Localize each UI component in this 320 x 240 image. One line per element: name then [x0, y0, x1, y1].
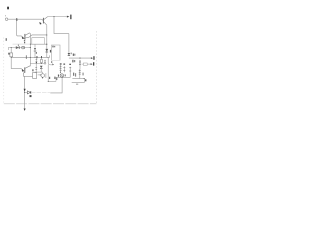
- rail left vertical x30: [29, 33, 31, 66]
- zener diode mid column x35: [34, 44, 36, 47]
- Q3 collector diagonal: [25, 66, 30, 69]
- wire x84 down: [83, 79, 85, 83]
- wire x36 column: [35, 64, 37, 73]
- node center wire: [46, 35, 47, 36]
- node rail58 x80: [79, 58, 80, 59]
- resistor R3 box right lower: [79, 69, 81, 76]
- small box mid right: [83, 63, 87, 65]
- pin label right 2: [93, 62, 94, 65]
- component x64 vertical: [63, 66, 65, 72]
- label under rail58 b: [74, 60, 75, 62]
- label top x70: [69, 64, 71, 65]
- transistor Q1 collector lead up: [44, 17, 48, 20]
- transistor Q2 lead to right: [25, 35, 47, 38]
- Q3 base wire: [11, 68, 22, 70]
- wire down right branch: [68, 34, 70, 53]
- transistor Q2 collector lead: [25, 33, 30, 35]
- transistor Q1 emitter arrow: [40, 22, 42, 24]
- transistor Q3 bar: [24, 67, 26, 72]
- transistor Q2 emitter arrow: [22, 36, 25, 39]
- node rail44 right: [46, 44, 47, 45]
- rail y82.7: [72, 82, 85, 84]
- tick left of rail77: [73, 73, 74, 76]
- arrow terminal right 2: [91, 63, 93, 65]
- marks below-left of mid rail: [56, 78, 57, 80]
- wire to arrow right 2: [88, 63, 91, 65]
- node rail47 x11: [11, 47, 12, 48]
- ticks R3: [79, 70, 81, 74]
- diode D3 inline: [16, 46, 19, 49]
- diode D2 on center wire: [45, 49, 48, 52]
- resistor R5 box: [33, 73, 37, 79]
- marks at bend cluster: [50, 61, 53, 63]
- transistor Q6 cluster: [60, 74, 63, 77]
- wire R3 to rail: [79, 76, 81, 79]
- wire column x41.5: [40, 58, 42, 63]
- tick inside Q6: [61, 75, 63, 76]
- diode D5 bar: [30, 91, 32, 94]
- label right of rail82: [85, 79, 86, 81]
- wire from Q6 node down: [50, 77, 62, 93]
- node rail81: [48, 81, 49, 82]
- ticks right of Q4: [45, 73, 47, 78]
- zener bar: [34, 50, 36, 52]
- node rail44 left: [30, 44, 31, 45]
- ticks x64: [63, 67, 65, 70]
- node rail x30: [30, 57, 31, 58]
- marks above rail81 b: [54, 77, 55, 79]
- node below R4: [60, 72, 61, 73]
- bottom long wire: [24, 76, 26, 110]
- component column x36.4: [35, 58, 37, 63]
- resistor R1 box on left rail: [10, 53, 13, 57]
- wire vertical main center: [46, 25, 48, 57]
- zener small blob: [36, 52, 37, 54]
- tick left of rail77 b: [74, 73, 77, 76]
- arrow terminal right 1: [91, 57, 93, 59]
- zener lower lead: [34, 51, 36, 57]
- diode D5 triangle: [27, 91, 30, 94]
- component column x45: [44, 60, 46, 65]
- stub left end: [7, 48, 9, 51]
- Q6 marks left: [58, 75, 59, 77]
- arrow head: [40, 74, 41, 75]
- node rail x35: [34, 56, 37, 59]
- transistor Q2 bar: [24, 34, 26, 40]
- tick crossing rail57 at x41.5: [40, 56, 43, 58]
- arrow into circle: [38, 74, 40, 76]
- mark right of Q3: [32, 69, 33, 71]
- diode D5 anode wire: [25, 91, 28, 93]
- transistor Q3 arrow: [22, 69, 24, 72]
- diode D4 below rail63: [40, 66, 43, 69]
- left rail vertical x11: [10, 48, 12, 69]
- blob bottom column x36.4: [36, 62, 37, 63]
- label top x64: [63, 64, 65, 65]
- wire top rail to output arrow: [48, 16, 67, 18]
- node top rail: [53, 16, 54, 17]
- tick above terminal: [4, 14, 7, 17]
- label right of D1 b: [73, 54, 76, 56]
- node rail77 x84: [84, 78, 85, 79]
- label left of R1: [8, 53, 9, 55]
- wire x48 down to rail81: [47, 65, 49, 82]
- Q4 node bottom: [42, 77, 43, 78]
- resistor R4 mid cluster: [60, 65, 62, 73]
- tick right of D1: [70, 53, 73, 55]
- node rail63 x41: [41, 63, 42, 64]
- label below D5: [30, 95, 32, 97]
- stub left of small box: [82, 63, 84, 65]
- rail y63.5: [30, 63, 46, 65]
- tick below faint rail: [17, 45, 20, 47]
- tick crossing rail57 at x37: [36, 56, 39, 58]
- label top R4: [60, 63, 62, 64]
- node at diode junction: [24, 92, 25, 93]
- diode D1 bar: [68, 55, 70, 57]
- rail y77.8 right cluster: [72, 78, 84, 80]
- label below Q2 bar b: [24, 42, 25, 43]
- ticks on column x36.4: [36, 60, 38, 62]
- tick mid right cluster: [82, 73, 85, 76]
- diode D3 cathode bar: [18, 46, 20, 49]
- wire from top node down and right: [54, 17, 69, 34]
- IC box middle: [51, 45, 60, 60]
- faint text under rail82: [76, 84, 78, 85]
- resistor R2 box right: [79, 60, 81, 66]
- component x70 vertical: [69, 67, 71, 78]
- faint rail y44 left: [13, 43, 31, 45]
- bend cluster arrow: [52, 63, 54, 65]
- current arrow on bottom wire: [24, 89, 26, 92]
- component symbol right of D3: [22, 46, 25, 49]
- border left: [3, 38, 5, 104]
- tick on column x45: [44, 61, 46, 63]
- wire D4 to rail72: [40, 69, 42, 73]
- transistor Q4 circle: [41, 74, 45, 78]
- ticks x36: [35, 67, 37, 69]
- transistor Q1 lead down-right: [44, 22, 47, 25]
- diode D4 bar: [40, 68, 43, 70]
- tick on rail57 x26: [25, 55, 28, 59]
- wire input to Q1: [8, 19, 43, 21]
- Q6 marks right: [65, 74, 66, 76]
- pin label right 1: [93, 56, 94, 60]
- wire down from input node: [17, 19, 22, 36]
- box component upper middle: [32, 38, 45, 45]
- node bottom rail x11: [11, 57, 12, 58]
- bottom rail y57.3: [11, 56, 49, 58]
- rail y44: [30, 43, 47, 45]
- marks above rail81: [49, 77, 50, 79]
- ticks R2: [79, 61, 81, 65]
- rail y77.3 mid: [56, 76, 71, 78]
- faint wire right of D5: [31, 92, 50, 94]
- terminal IN circle: [5, 18, 8, 21]
- text inside box 2: [54, 46, 55, 47]
- rail y72.1: [35, 71, 43, 73]
- arrow terminal top: [67, 16, 70, 18]
- ticks x70: [69, 68, 71, 71]
- wire box bottom bend: [47, 57, 53, 65]
- label right of D1: [73, 54, 74, 56]
- IC box bottom faint: [51, 59, 60, 61]
- wire R2 to R3: [79, 66, 81, 69]
- label below Q2 bar: [24, 40, 25, 41]
- label right of D2: [50, 50, 52, 53]
- rail y58 right area: [69, 57, 91, 59]
- border right: [95, 31, 97, 104]
- transistor Q1 bar: [42, 18, 44, 24]
- pin label top terminal: [70, 15, 71, 20]
- diode D2 bar: [46, 51, 49, 53]
- node rail47 x30: [30, 47, 31, 48]
- tick on symbol: [23, 46, 25, 49]
- border bottom: [4, 103, 97, 105]
- rail y81.4: [48, 80, 56, 82]
- text inside box: [52, 46, 53, 48]
- rail left y47.5: [8, 47, 30, 49]
- label under rail58: [72, 60, 73, 63]
- wire rail81 to rail77: [55, 77, 57, 81]
- label figure number top-left: [7, 7, 9, 10]
- node mid rail: [61, 77, 62, 78]
- tick up at rail right end: [49, 55, 51, 57]
- label E left margin: [6, 38, 7, 41]
- diode D1 bottom of right branch: [68, 53, 71, 55]
- rail y76.3: [23, 75, 32, 77]
- Q4 stub up: [42, 72, 44, 74]
- node at x16.7: [16, 18, 17, 21]
- arrowhead bottom of long wire: [24, 109, 26, 111]
- component box on column x41.5: [41, 59, 43, 62]
- Q3 emitter diagonal: [23, 72, 24, 76]
- zener triangle: [34, 48, 36, 50]
- ticks R4: [60, 66, 62, 70]
